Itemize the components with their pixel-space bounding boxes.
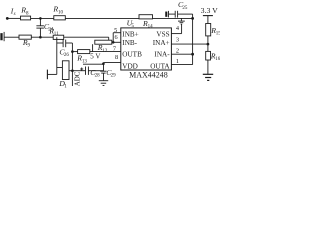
svg-text:2: 2: [176, 47, 179, 54]
svg-text:12: 12: [102, 49, 108, 54]
svg-text:s: s: [14, 12, 16, 17]
svg-text:INB+: INB+: [122, 30, 138, 38]
svg-text:MAX44248: MAX44248: [129, 71, 168, 80]
svg-text:14: 14: [148, 25, 154, 30]
svg-text:25: 25: [182, 6, 188, 11]
svg-text:13: 13: [82, 59, 88, 64]
svg-text:1: 1: [176, 58, 179, 65]
svg-text:26: 26: [64, 53, 70, 58]
svg-text:OUTA: OUTA: [150, 63, 170, 71]
svg-text:11: 11: [54, 32, 59, 37]
svg-text:1: 1: [64, 85, 67, 90]
svg-text:3.3 V: 3.3 V: [201, 6, 219, 15]
svg-text:4: 4: [176, 25, 180, 32]
svg-text:VSS: VSS: [156, 30, 169, 38]
svg-text:3: 3: [176, 37, 179, 44]
svg-text:7: 7: [113, 45, 116, 52]
svg-text:OUTB: OUTB: [122, 50, 142, 58]
svg-text:9: 9: [28, 44, 31, 49]
svg-text:16: 16: [215, 57, 220, 62]
svg-text:28: 28: [95, 74, 101, 79]
svg-text:15: 15: [216, 32, 220, 37]
svg-text:10: 10: [58, 10, 64, 15]
svg-text:INA+: INA+: [153, 39, 170, 47]
svg-text:5: 5: [114, 27, 117, 34]
svg-text:VDD: VDD: [122, 63, 138, 71]
svg-text:ADC: ADC: [74, 71, 82, 86]
svg-text:6: 6: [115, 34, 118, 41]
svg-text:8: 8: [26, 11, 29, 16]
svg-text:INA-: INA-: [154, 50, 170, 58]
svg-text:5 V: 5 V: [90, 53, 100, 61]
svg-text:29: 29: [111, 73, 117, 78]
svg-text:INB-: INB-: [122, 39, 137, 47]
svg-text:8: 8: [115, 54, 118, 61]
